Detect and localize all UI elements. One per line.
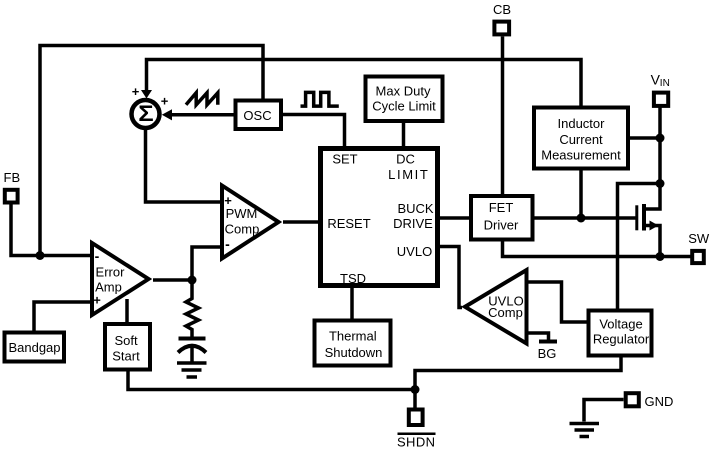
svg-text:TSD: TSD (340, 271, 366, 286)
svg-text:FB: FB (4, 170, 21, 185)
svg-text:+: + (132, 84, 140, 99)
node gate line junction (577, 214, 586, 223)
wire CB pin to FET Driver top (501, 37, 505, 195)
block control logic U3 (321, 149, 438, 286)
svg-text:Start: Start (112, 349, 140, 364)
wire OSC sawtooth output to summing node (arrow) (162, 109, 234, 120)
capacitor C1 curved plate (178, 346, 206, 353)
sawtooth waveform icon (186, 93, 218, 105)
op-amp Error Amp (92, 243, 149, 315)
svg-text:Error: Error (96, 265, 126, 280)
ground symbol at GND pin (570, 424, 600, 437)
wire FB pin to Error Amp inverting input (11, 204, 90, 256)
svg-text:IN: IN (660, 78, 670, 89)
svg-text:+: + (161, 94, 169, 109)
pin FB (5, 190, 18, 203)
pin SW (692, 251, 704, 263)
capacitor C1 compensation top plate (179, 337, 206, 341)
wire VIN pin down rail (658, 106, 662, 184)
svg-text:FET: FET (489, 200, 514, 215)
svg-text:BUCK: BUCK (397, 201, 433, 216)
svg-text:PWM: PWM (226, 206, 258, 221)
pin GND (626, 393, 639, 406)
svg-text:-: - (225, 236, 230, 252)
transistor Q1 gate bar (635, 205, 638, 230)
node FB junction (36, 251, 45, 260)
node VIN-ICM junction (656, 134, 665, 143)
wire OSC clock output to SET input (283, 115, 345, 147)
op-amp UVLO Comp (465, 270, 527, 344)
transistor Q1 drain lead (644, 184, 660, 210)
svg-text:RESET: RESET (327, 216, 370, 231)
arrow into summing node top (141, 90, 152, 99)
wire capacitor to ground (190, 347, 194, 363)
transistor Q1 channel bar (642, 204, 646, 231)
svg-text:SET: SET (332, 152, 357, 167)
pin SHDN (active low) (409, 410, 423, 426)
node COMP junction (188, 276, 197, 285)
svg-text:-: - (95, 248, 100, 264)
svg-text:UVLO: UVLO (397, 244, 432, 259)
svg-text:Voltage: Voltage (599, 317, 642, 332)
svg-text:+: + (224, 193, 232, 208)
wire Inductor Current Measurement bottom to gate line (579, 171, 583, 219)
wire FET Driver output to MOSFET gate (535, 216, 636, 220)
block Thermal Shutdown (315, 321, 391, 366)
ground symbol at compensation network (177, 363, 207, 377)
svg-text:Thermal: Thermal (329, 329, 377, 344)
oscillator OSC box (236, 101, 282, 130)
svg-text:Inductor: Inductor (558, 116, 606, 131)
wire FB net: pin FB up-right to top rail then down to OSC top (40, 46, 263, 256)
block Inductor Current Measurement (534, 108, 628, 169)
transistor Q1 source lead (644, 226, 660, 257)
wire GND pin to ground (584, 400, 624, 422)
svg-text:Soft: Soft (114, 333, 138, 348)
wire Bandgap to Error Amp non-inverting input (34, 302, 90, 331)
wire PWM Comp output to RESET input (283, 220, 318, 224)
wire Max Duty Cycle Limit to DC LIMIT input (402, 123, 406, 146)
wire COMP node to PWM Comp inverting input (192, 247, 220, 280)
svg-text:Bandgap: Bandgap (8, 340, 60, 355)
svg-text:Max Duty: Max Duty (376, 84, 431, 99)
op-amp PWM Comp (222, 186, 279, 259)
wire UVLO Comp input from Voltage Regulator (528, 282, 587, 322)
node SW junction (656, 252, 665, 261)
svg-text:Measurement: Measurement (541, 148, 621, 163)
block Bandgap (5, 333, 65, 362)
svg-text:LIMIT: LIMIT (388, 167, 429, 182)
wire Error Amp to Soft Start top (125, 299, 129, 322)
wire Voltage Regulator bottom to SHDN node and Soft Start (128, 358, 621, 390)
svg-text:DC: DC (396, 152, 415, 167)
svg-text:BG: BG (538, 346, 557, 361)
wire BUCK DRIVE output to FET Driver (440, 216, 469, 220)
svg-text:Cycle Limit: Cycle Limit (372, 99, 436, 114)
svg-text:CB: CB (493, 2, 511, 17)
wire TSD to Thermal Shutdown (350, 288, 354, 319)
svg-text:OSC: OSC (243, 108, 271, 123)
svg-text:SW: SW (688, 231, 710, 246)
node VIN-drain junction (656, 179, 665, 188)
summing node U2 (132, 100, 160, 128)
node SHDN junction (411, 385, 420, 394)
svg-text:Comp: Comp (488, 305, 523, 320)
wire Inductor Current Measurement right to VIN rail (630, 136, 660, 140)
svg-text:+: + (93, 293, 101, 308)
pin VIN (654, 93, 668, 106)
wire FET Driver bottom to SW line and SW pin (503, 242, 692, 257)
pin CB (494, 22, 509, 35)
svg-text:Regulator: Regulator (593, 332, 650, 347)
svg-text:DRIVE: DRIVE (393, 216, 433, 231)
wire summing node output to PWM Comp non-inverting input (146, 128, 221, 202)
wire Error Amp output to COMP node (153, 278, 192, 282)
wire UVLO output of logic box to UVLO Comp apex (440, 247, 462, 308)
block Max Duty Cycle Limit (366, 77, 443, 122)
block FET Driver (471, 196, 533, 240)
svg-text:Driver: Driver (484, 218, 519, 233)
block Soft Start (105, 324, 150, 370)
svg-text:SHDN: SHDN (397, 435, 435, 450)
block Voltage Regulator (589, 311, 652, 356)
resistor R1 compensation (186, 280, 199, 339)
wire slope-comp net: summing node top rail to Inductor Current Measurement top (147, 60, 582, 107)
wire VIN rail to Voltage Regulator input (618, 184, 661, 309)
svg-text:Σ: Σ (138, 101, 153, 126)
BG reference rail symbol (539, 340, 557, 344)
square wave icon (301, 92, 339, 106)
svg-text:Current: Current (559, 132, 603, 147)
svg-text:Comp: Comp (225, 222, 260, 237)
wire UVLO Comp input from BG reference (528, 333, 549, 341)
svg-text:Shutdown: Shutdown (325, 345, 383, 360)
svg-text:GND: GND (645, 394, 674, 409)
transistor Q1 source arrow (650, 221, 659, 231)
wire SHDN pin stub (413, 390, 417, 409)
